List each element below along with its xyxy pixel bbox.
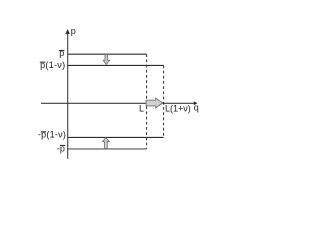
axis q (horizontal) (41, 101, 197, 105)
label -pbar(1-v) (38, 130, 66, 140)
svg-text:L: L (139, 104, 144, 114)
label pbar(1-v) (40, 60, 66, 70)
label -pbar (57, 143, 65, 153)
label pbar (59, 48, 64, 58)
dashed vertical at L (146, 54, 148, 149)
block arrow right (quantity expand, on q axis) (146, 98, 163, 108)
block arrow up (price band shrink, bottom) (103, 138, 110, 149)
svg-text:p(1-ν): p(1-ν) (40, 60, 65, 70)
svg-text:L(1+ν): L(1+ν) (165, 104, 191, 114)
line pbar(1-v) (68, 64, 164, 66)
svg-text:p: p (59, 48, 64, 58)
svg-text:-p(1-ν): -p(1-ν) (38, 130, 66, 140)
axis p (vertical) (65, 29, 69, 159)
svg-text:p: p (71, 26, 76, 36)
svg-text:q: q (194, 103, 199, 113)
line pbar (upper bound) (68, 53, 147, 55)
line -pbar(1-v) (68, 136, 164, 138)
svg-text:-p: -p (57, 143, 65, 153)
dashed vertical at L(1+v) (163, 65, 165, 137)
block arrow down (price band shrink, top) (103, 55, 109, 65)
line -pbar (lower bound) (68, 148, 147, 150)
